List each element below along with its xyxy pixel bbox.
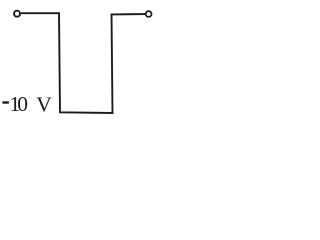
- svg-text:0: 0: [17, 92, 28, 116]
- svg-text:V: V: [36, 93, 52, 117]
